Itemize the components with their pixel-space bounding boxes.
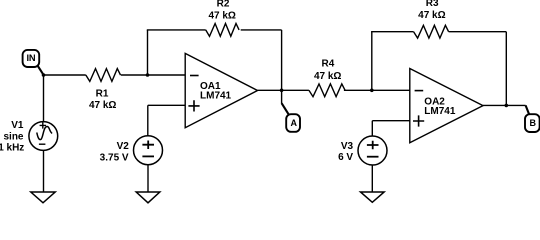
wire R2 feedback loop left vertical — [147, 30, 149, 75]
wire R3 loop top left segment — [371, 31, 414, 33]
svg-text:B: B — [529, 118, 536, 128]
wire R2 loop top right segment — [241, 29, 282, 31]
wire R4 to R3 junction — [344, 89, 372, 91]
svg-text:R2: R2 — [217, 0, 230, 10]
svg-text:sine: sine — [3, 131, 23, 142]
svg-text:47 kΩ: 47 kΩ — [314, 71, 341, 82]
node IN terminal box — [23, 50, 40, 67]
svg-text:3.75 V: 3.75 V — [100, 152, 129, 163]
svg-text:A: A — [291, 118, 298, 128]
wire OA2 output to junction — [483, 104, 506, 106]
svg-text:LM741: LM741 — [424, 106, 456, 117]
ground below V1 — [31, 192, 55, 203]
label V1 sine 1 kHz — [0, 120, 24, 154]
label V3 6 V — [338, 141, 353, 163]
junction dot R4/R3 loop — [370, 89, 374, 93]
label V2 3.75 V — [100, 141, 130, 163]
svg-text:1 kHz: 1 kHz — [0, 143, 24, 154]
voltage source V2 DC — [134, 105, 186, 192]
wire node A stub down — [281, 90, 283, 103]
voltage source V1 sine — [29, 75, 58, 192]
voltage source V3 DC — [358, 121, 410, 192]
svg-text:47 kΩ: 47 kΩ — [418, 10, 445, 21]
wire R3 loop top right segment — [449, 31, 507, 33]
wire IN diagonal lead — [37, 65, 43, 75]
wire junction to OA1 inverting input — [148, 74, 186, 76]
junction dot node IN/V1/R1 — [42, 73, 46, 77]
wire R2 loop top left segment — [147, 29, 206, 31]
svg-text:V3: V3 — [341, 141, 354, 152]
ground below V3 — [361, 192, 385, 202]
node B terminal box — [525, 114, 540, 132]
resistor R2 — [206, 24, 239, 37]
resistor R3 — [414, 25, 449, 38]
resistor R4 — [309, 84, 345, 97]
wire R3 feedback loop left vertical — [371, 32, 373, 91]
wire R1 to R2 junction — [121, 74, 148, 76]
svg-text:47 kΩ: 47 kΩ — [208, 11, 235, 22]
ground below V2 — [136, 192, 160, 203]
wire R3 loop right vertical — [505, 32, 507, 106]
resistor R1 — [86, 69, 121, 82]
node A terminal box — [286, 114, 300, 132]
svg-text:R3: R3 — [426, 0, 439, 9]
svg-text:IN: IN — [26, 53, 35, 63]
wire junction to R4 — [282, 89, 309, 91]
wire junction to R1 — [44, 74, 86, 76]
svg-text:R4: R4 — [322, 59, 335, 70]
svg-text:47 kΩ: 47 kΩ — [89, 100, 116, 111]
wire OA1 output to junction — [258, 89, 282, 91]
op-amp U1 OA1 LM741 — [185, 53, 257, 127]
junction dot R1/R2 loop — [146, 73, 150, 77]
junction dot node A / OA1 out — [280, 89, 284, 93]
svg-text:V2: V2 — [117, 141, 130, 152]
op-amp U2 OA2 LM741 — [410, 69, 483, 143]
svg-text:V1: V1 — [11, 120, 24, 131]
wire node A diagonal lead — [282, 103, 289, 115]
wire junction toward node B — [506, 104, 525, 106]
wire R2 loop right vertical — [281, 30, 283, 90]
svg-text:LM741: LM741 — [200, 91, 232, 102]
junction dot node B / OA2 out — [505, 104, 509, 108]
svg-text:6 V: 6 V — [338, 152, 353, 163]
wire junction to OA2 inverting input — [372, 89, 410, 91]
wire node B diagonal lead — [526, 105, 530, 114]
svg-text:R1: R1 — [96, 88, 109, 99]
